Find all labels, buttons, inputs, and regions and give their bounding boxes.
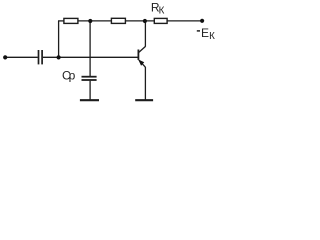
svg-text:К: К xyxy=(209,31,215,42)
svg-text:Е: Е xyxy=(201,26,209,40)
svg-text:К: К xyxy=(159,6,165,17)
svg-text:р: р xyxy=(69,69,76,83)
